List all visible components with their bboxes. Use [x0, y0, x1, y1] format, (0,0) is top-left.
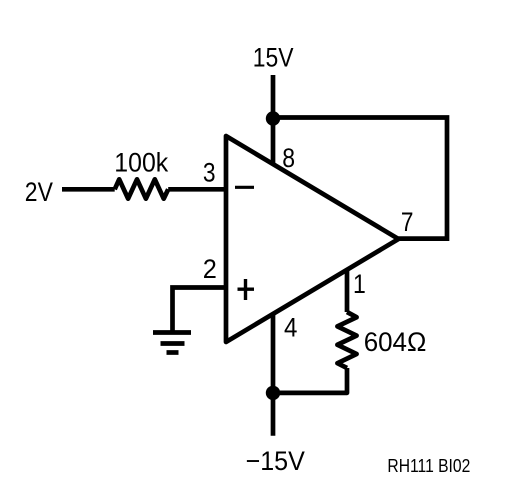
svg-text:RH111 BI02: RH111 BI02	[387, 456, 470, 476]
svg-text:1: 1	[353, 269, 366, 299]
svg-text:7: 7	[401, 207, 414, 237]
caption RH111 BI02	[387, 456, 470, 476]
value label 100k	[114, 148, 168, 178]
junction dot at -15V / pin 4 node	[266, 386, 280, 400]
pin 4 label	[284, 312, 297, 342]
wire 15V supply down to pin 8	[271, 75, 276, 164]
wire pin 2 to ground	[173, 288, 227, 333]
pin 3 label	[203, 158, 216, 188]
inverting input minus sign	[235, 186, 254, 189]
op-amp U1 (RH111 comparator) triangle	[226, 136, 399, 342]
pin 2 label	[203, 254, 217, 284]
pin 1 label	[353, 269, 366, 299]
wire pin 4 down to -15V supply	[271, 314, 276, 436]
node 2V input label	[25, 177, 53, 207]
resistor R1 100k (horizontal zigzag)	[115, 179, 169, 198]
wire resistor R2 to -15V junction	[273, 368, 347, 393]
svg-text:2: 2	[203, 254, 217, 284]
non-inverting input plus sign	[238, 279, 255, 300]
svg-text:100k: 100k	[114, 148, 168, 178]
junction dot at 15V / pin 8 node	[266, 111, 280, 125]
pin 7 label	[401, 207, 414, 237]
value label 604 ohm	[364, 327, 427, 357]
node 15V supply label	[253, 43, 294, 73]
svg-text:2V: 2V	[25, 177, 53, 207]
node -15V supply label	[246, 446, 305, 476]
svg-text:8: 8	[282, 143, 295, 173]
wire resistor R1 to pin 3	[168, 187, 226, 192]
svg-text:−15V: −15V	[246, 446, 305, 476]
wire 2V input to resistor R1	[62, 187, 115, 192]
wire pin 8 node to output pin 7 (top loop)	[273, 118, 447, 239]
svg-text:604Ω: 604Ω	[364, 327, 427, 357]
ground symbol	[153, 333, 191, 353]
svg-text:3: 3	[203, 158, 216, 188]
wire pin 1 to resistor R2	[345, 270, 350, 312]
pin 8 label	[282, 143, 295, 173]
resistor R2 604 ohm (vertical zigzag)	[337, 312, 356, 368]
svg-text:4: 4	[284, 312, 297, 342]
svg-text:15V: 15V	[253, 43, 294, 73]
